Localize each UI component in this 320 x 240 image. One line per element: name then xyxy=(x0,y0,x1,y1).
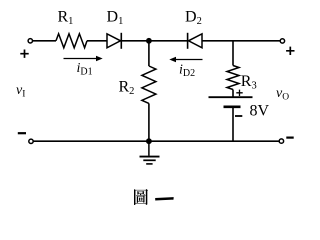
node junction dot xyxy=(146,38,152,44)
ground xyxy=(148,141,150,156)
wire node to R2 xyxy=(148,41,150,66)
resistor R3 xyxy=(227,66,239,90)
minus sign bottom-right xyxy=(286,137,293,139)
wire top to R3 xyxy=(232,41,234,66)
wire D1 to node xyxy=(121,40,187,42)
plus sign top-left xyxy=(20,50,28,58)
current arrow iD2 xyxy=(173,59,203,61)
plus sign top-right xyxy=(286,47,294,55)
svg-text:vO: vO xyxy=(276,86,289,103)
battery minus sign xyxy=(235,115,242,117)
svg-text:D1: D1 xyxy=(107,9,124,28)
wire R2 to bottom xyxy=(148,103,150,141)
wire top-left to R1 xyxy=(33,40,56,42)
terminal top-left xyxy=(28,39,32,43)
svg-text:D2: D2 xyxy=(185,9,202,28)
resistor R1 xyxy=(56,34,87,48)
resistor R2 xyxy=(142,66,156,103)
terminal top-right xyxy=(280,39,284,43)
svg-text:iD1: iD1 xyxy=(77,61,93,78)
svg-text:iD2: iD2 xyxy=(179,63,195,80)
wire battery to bottom xyxy=(232,107,234,141)
svg-text:R2: R2 xyxy=(119,79,135,98)
wire R1 to D1 xyxy=(87,40,107,42)
terminal bottom-left xyxy=(29,139,33,143)
diode D1 xyxy=(107,34,121,48)
caption 圖 (Figure) xyxy=(134,189,148,205)
terminal bottom-right xyxy=(279,139,283,143)
svg-text:R1: R1 xyxy=(58,9,74,28)
wire D2 to terminal top-right xyxy=(202,40,280,42)
diode D2 xyxy=(187,33,189,49)
svg-text:8V: 8V xyxy=(250,103,270,120)
wire R3 to battery xyxy=(232,90,234,98)
bottom wire xyxy=(33,140,279,142)
junction dot bottom (ground node) xyxy=(146,138,152,144)
battery plus sign xyxy=(236,90,242,96)
svg-text:R3: R3 xyxy=(241,73,257,92)
battery short plate (-) xyxy=(224,106,241,109)
battery long plate (+) xyxy=(209,96,253,98)
caption 一 (one) xyxy=(155,197,173,200)
current arrow iD1 xyxy=(64,58,100,60)
svg-text:vI: vI xyxy=(16,83,25,100)
minus sign bottom-left xyxy=(18,132,26,134)
